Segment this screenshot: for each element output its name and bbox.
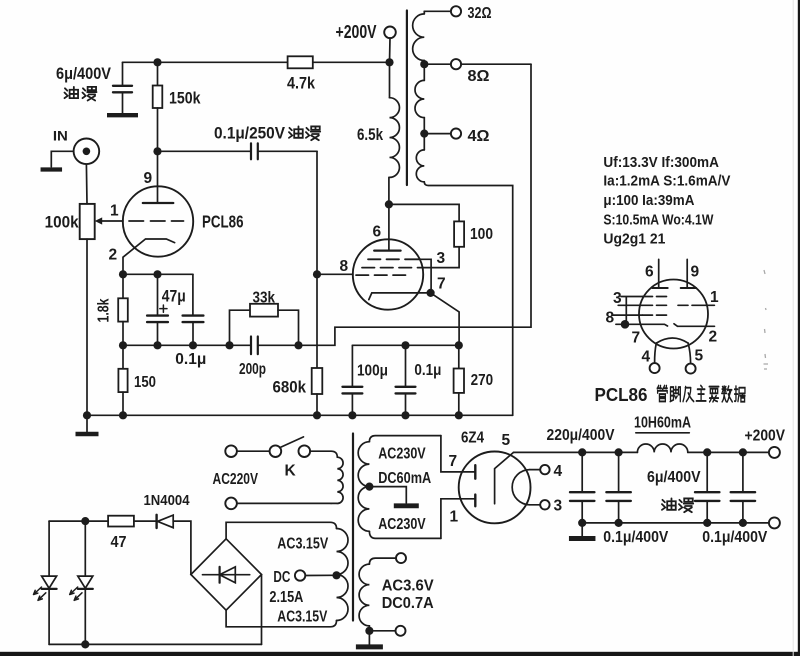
svg-text:8: 8 xyxy=(606,310,615,327)
svg-text:AC220V: AC220V xyxy=(213,471,259,488)
ground bar HV center tap xyxy=(394,503,419,508)
wire pin 7 cathode down to RC network xyxy=(431,293,460,345)
pinout cathode line pin 7 with dot xyxy=(616,324,668,326)
svg-text:DC60mA: DC60mA xyxy=(378,470,431,487)
wire B+ rail from rectifier xyxy=(514,451,638,453)
junction dot +200V node xyxy=(385,58,393,66)
wire LED bottom return rail xyxy=(49,643,261,645)
svg-text:8: 8 xyxy=(340,258,349,275)
label oil-immersed (6u cap) xyxy=(64,87,78,98)
bridge rectifier diamond xyxy=(191,539,262,610)
svg-text:7: 7 xyxy=(632,329,641,346)
junction dot HV center tap xyxy=(365,483,373,491)
svg-text:Ug2g1 21: Ug2g1 21 xyxy=(603,232,665,248)
wire plate node to screen resistor xyxy=(389,204,459,221)
diode 1N4004 xyxy=(155,515,157,528)
pinout pin 3 lead with bracket to cathode xyxy=(621,297,643,325)
pinout pin 9 lead and plate bar xyxy=(686,259,688,288)
6Z4 cathode (pin 5) lead to filter xyxy=(495,452,514,503)
output transformer secondary middle segment xyxy=(423,64,425,80)
ground rail of amplifier xyxy=(87,414,513,416)
pentode g2 dashed row xyxy=(362,267,424,269)
junction dot LED2 top xyxy=(81,517,89,525)
svg-text:IN: IN xyxy=(53,129,68,144)
resistor 680k grid leak xyxy=(316,274,318,368)
svg-text:7: 7 xyxy=(449,453,458,470)
faint scan marks right margin xyxy=(764,270,769,369)
wire DC terminal to center tap xyxy=(305,574,332,576)
svg-text:47: 47 xyxy=(111,534,127,551)
inductor choke 10H60mA xyxy=(637,444,687,452)
svg-text:2.15A: 2.15A xyxy=(269,589,303,606)
ground bar of 6u cap xyxy=(107,113,138,117)
wire secondary top to 32 ohm terminal xyxy=(424,10,451,12)
wire bridge output to bottom rail xyxy=(261,575,263,645)
wire LED top feed xyxy=(49,520,108,522)
wire 8 ohm terminal to feedback line xyxy=(461,63,531,65)
svg-text:100: 100 xyxy=(470,226,493,243)
terminal 3 heater xyxy=(540,500,549,509)
svg-text:1N4004: 1N4004 xyxy=(144,493,190,509)
svg-text:6μ/400V: 6μ/400V xyxy=(56,65,111,83)
svg-text:5: 5 xyxy=(502,432,511,449)
wire HV center tap to ground xyxy=(369,487,406,503)
svg-text:6.5k: 6.5k xyxy=(357,126,384,144)
svg-text:AC230V: AC230V xyxy=(378,516,426,533)
scan border bottom xyxy=(0,652,800,656)
svg-text:+200V: +200V xyxy=(745,428,786,445)
capacitor 100u cathode bypass xyxy=(351,345,353,386)
terminal +200V (top) xyxy=(384,27,396,39)
junction dot feedback node xyxy=(294,341,302,349)
terminal 4 ohm xyxy=(451,129,461,139)
svg-text:0.1μ/250V: 0.1μ/250V xyxy=(214,125,285,143)
svg-text:AC230V: AC230V xyxy=(378,446,426,463)
wire HV bottom to 6Z4 pin 1 xyxy=(441,499,475,539)
capacitor 200p feedback xyxy=(251,337,258,355)
capacitor 0.1u/400V second xyxy=(742,452,744,491)
pinout terminal pin 4 xyxy=(650,363,660,373)
scan border right xyxy=(798,0,800,656)
power transformer filament winding AC3.6V xyxy=(369,558,396,564)
output transformer core xyxy=(406,11,408,186)
svg-text:PCL86: PCL86 xyxy=(202,212,244,232)
capacitor 0.1u/250V oil coupling cap xyxy=(158,150,252,152)
svg-text:2: 2 xyxy=(109,247,118,264)
wire coupling cap down to grid node xyxy=(316,151,318,274)
svg-text:220μ/400V: 220μ/400V xyxy=(547,427,616,444)
svg-text:K: K xyxy=(285,463,297,480)
junction dot 150k top xyxy=(153,58,161,66)
6Z4 plate bar pin 7 xyxy=(474,465,476,479)
svg-text:10H60mA: 10H60mA xyxy=(634,415,691,432)
svg-text:+200V: +200V xyxy=(336,21,377,42)
LED D1 indicator xyxy=(48,521,50,576)
6Z4 heater arc xyxy=(512,470,530,505)
capacitor 0.1u pentode cathode xyxy=(405,345,407,386)
junction dot LED winding center tap xyxy=(332,571,340,579)
junction dot triode plate node xyxy=(153,147,161,155)
triode grid dashed line (pin 1) xyxy=(129,220,184,222)
wire AC terminal to switch xyxy=(237,450,270,452)
svg-text:100μ: 100μ xyxy=(357,363,388,380)
wire pentode cathode RC row xyxy=(352,344,458,346)
terminal 32 ohm xyxy=(451,6,461,16)
wire choke to +200V terminal xyxy=(688,451,769,453)
terminal 8 ohm xyxy=(451,59,461,69)
svg-text:4: 4 xyxy=(554,463,563,480)
ground stub of input jack xyxy=(51,151,73,167)
capacitor 220u/400V reservoir xyxy=(581,452,583,491)
svg-text:32Ω: 32Ω xyxy=(468,5,492,22)
output transformer secondary bottom segment xyxy=(423,134,425,150)
svg-text:4.7k: 4.7k xyxy=(287,75,316,93)
svg-text:4: 4 xyxy=(642,349,651,366)
pinout pin 6 lead and plate bar xyxy=(658,259,660,288)
svg-text:1.8k: 1.8k xyxy=(96,298,113,322)
svg-text:9: 9 xyxy=(691,263,700,280)
junction dot plate node xyxy=(385,200,393,208)
node +200V top supply rail wire xyxy=(123,61,288,63)
svg-text:0.1μ/400V: 0.1μ/400V xyxy=(702,529,768,546)
junction dot 8 ohm tap xyxy=(420,60,428,68)
bridge inner diode symbol xyxy=(203,574,250,576)
svg-text:Ia:1.2mA S:1.6mA/V: Ia:1.2mA S:1.6mA/V xyxy=(603,174,730,190)
resistor 100 screen grid stopper xyxy=(454,221,464,246)
resistor 270 cathode xyxy=(458,345,460,368)
wire 100 resistor to g2 xyxy=(424,247,460,268)
wire input jack to pot top xyxy=(85,164,88,204)
junction dot grid node pentode xyxy=(313,270,321,278)
6Z4 plate bar pin 1 xyxy=(474,495,476,507)
svg-text:6: 6 xyxy=(373,224,382,241)
resistor 150 cathode lower xyxy=(122,345,124,369)
LED D2 emission arrows xyxy=(70,587,78,595)
pinout triode grid dashes pin 1 xyxy=(678,304,714,306)
svg-text:2: 2 xyxy=(709,328,718,345)
terminal IN input jack xyxy=(74,139,100,165)
triode cathode with pin 2 lead xyxy=(123,239,175,274)
wire filament bottom to terminal xyxy=(369,630,395,632)
pentode g3 dashed row and stub to cathode xyxy=(368,258,419,260)
svg-text:1: 1 xyxy=(110,203,119,220)
svg-text:7: 7 xyxy=(437,276,446,293)
wire grid node to pin 8 xyxy=(317,273,353,275)
wire pot bottom to ground rail xyxy=(86,239,88,415)
potentiometer 100k volume control body xyxy=(80,204,95,239)
junction dot filament bottom xyxy=(365,627,373,635)
tube PCL86 triode section envelope xyxy=(123,186,193,256)
pinout pin 8 lead xyxy=(613,314,643,316)
wire 1N4004 to bridge xyxy=(173,521,191,574)
pin 9 wire triode plate xyxy=(157,151,159,203)
terminal AC mains upper xyxy=(225,445,237,457)
wire 47 resistor to diode xyxy=(134,520,156,522)
svg-text:1: 1 xyxy=(710,289,719,306)
pinout heater arc pins 4 5 xyxy=(656,338,688,343)
capacitor 47u cathode bypass electrolytic xyxy=(157,274,159,314)
capacitor 6u/400V oil-filled (input supply bypass) xyxy=(122,62,124,84)
terminal filament upper xyxy=(396,553,406,563)
wire 8 ohm tap to terminal xyxy=(424,63,451,65)
svg-text:200p: 200p xyxy=(239,361,266,378)
resistor 1.8k cathode upper xyxy=(122,274,124,298)
svg-text:1: 1 xyxy=(450,508,459,525)
svg-text:150k: 150k xyxy=(169,90,201,108)
resistor 47 LED dropper xyxy=(108,516,134,527)
svg-text:3: 3 xyxy=(554,498,563,515)
capacitor 0.1u/400V first xyxy=(618,452,620,491)
wire +200V terminal riser xyxy=(389,38,392,62)
tube 6Z4 rectifier envelope xyxy=(459,452,531,524)
capacitor 6u/400V oil xyxy=(706,452,708,491)
svg-text:270: 270 xyxy=(471,372,494,389)
power transformer HV secondary winding xyxy=(369,436,441,442)
svg-text:9: 9 xyxy=(144,170,153,187)
wire lower AC terminal to primary bottom xyxy=(237,502,331,504)
wire heater to terminal 3 xyxy=(530,504,540,506)
wire secondary bottom return to ground rail xyxy=(424,182,512,415)
pot wiper arrow to pin 1 xyxy=(102,220,124,222)
power transformer primary winding xyxy=(331,451,337,457)
svg-text:Uf:13.3V If:300mA: Uf:13.3V If:300mA xyxy=(603,155,719,171)
svg-text:150: 150 xyxy=(134,374,156,391)
svg-text:6Z4: 6Z4 xyxy=(461,430,484,447)
svg-text:4Ω: 4Ω xyxy=(468,128,490,145)
svg-text:0.1μ: 0.1μ xyxy=(175,351,206,368)
pentode plate bar xyxy=(374,250,400,252)
svg-text:5: 5 xyxy=(695,348,704,365)
pinout terminal pin 5 xyxy=(686,364,696,374)
svg-text:6μ/400V: 6μ/400V xyxy=(647,469,701,486)
resistor 33k feedback (parallel with 200p) xyxy=(230,310,251,345)
svg-text:33k: 33k xyxy=(253,290,276,307)
svg-text:AC3.15V: AC3.15V xyxy=(277,609,328,626)
power transformer LED winding AC3.15V loop xyxy=(226,522,336,539)
wire B+ return rail xyxy=(582,522,769,524)
wire negative feedback from 8 ohm tap xyxy=(299,64,532,345)
resistor 4.7k (supply dropper) xyxy=(288,56,313,68)
terminal filament lower xyxy=(396,626,406,636)
LED D2 indicator xyxy=(84,521,86,576)
svg-text:S:10.5mA Wo:4.1W: S:10.5mA Wo:4.1W xyxy=(603,213,713,229)
wire 4.7k to +200V node xyxy=(313,61,390,63)
wire switch to transformer primary xyxy=(310,450,331,452)
output transformer primary 6.5k winding xyxy=(389,62,391,97)
svg-text:AC3.6V: AC3.6V xyxy=(382,578,435,595)
svg-text:μ:100 Ia:39mA: μ:100 Ia:39mA xyxy=(603,193,694,209)
pentode g1 dashed row (pin 8) xyxy=(356,274,406,276)
output transformer secondary winding top segment xyxy=(423,11,425,14)
svg-text:3: 3 xyxy=(437,250,446,267)
svg-text:3: 3 xyxy=(613,290,622,307)
svg-text:DC0.7A: DC0.7A xyxy=(382,595,434,612)
junction dots B+ rail xyxy=(578,448,586,456)
terminal 4 heater xyxy=(540,465,549,474)
svg-text:0.1μ/400V: 0.1μ/400V xyxy=(603,529,669,546)
svg-text:680k: 680k xyxy=(273,379,307,397)
ground symbol main rail xyxy=(86,415,88,432)
svg-text:0.1μ: 0.1μ xyxy=(414,362,441,379)
svg-text:PCL86: PCL86 xyxy=(595,384,648,405)
svg-text:47μ: 47μ xyxy=(162,287,186,305)
resistor 150k (plate load) xyxy=(157,62,159,85)
wire HV top to 6Z4 pin 7 xyxy=(441,436,475,472)
terminal +200V output xyxy=(769,447,780,458)
switch K mains xyxy=(270,445,282,457)
power transformer core xyxy=(352,434,354,621)
LED D1 emission arrows xyxy=(34,587,42,595)
pinout pentode grid dashes xyxy=(643,296,667,298)
wire 4 ohm tap to terminal xyxy=(424,133,451,135)
svg-text:100k: 100k xyxy=(45,214,80,232)
ground symbol filament xyxy=(368,631,370,645)
polarity + of 47u xyxy=(160,305,167,312)
wire cathode lower node row xyxy=(123,344,251,346)
svg-text:6: 6 xyxy=(645,263,654,280)
terminal AC mains lower xyxy=(225,498,237,510)
svg-text:DC: DC xyxy=(273,569,290,586)
label oil-immersed (coupling cap) xyxy=(289,126,303,137)
pin 6 wire pentode plate riser xyxy=(388,177,390,250)
wire heater to terminal 4 xyxy=(530,469,540,471)
triode plate bar xyxy=(143,202,174,204)
pentode cathode line xyxy=(369,293,431,300)
ground symbol filter xyxy=(581,523,583,536)
label oil-immersed (filter) xyxy=(662,498,676,509)
svg-text:AC3.15V: AC3.15V xyxy=(277,536,329,553)
capacitor 0.1u cathode (second bypass) xyxy=(192,274,194,314)
terminal B+ return xyxy=(769,517,780,528)
pinout triode cathode line pin 2 xyxy=(674,324,715,327)
tube PCL86 pentode section envelope xyxy=(353,239,423,309)
wire triode cathode node row xyxy=(123,273,193,275)
junction dot LED2 bottom xyxy=(81,640,89,648)
junction dot pin 7 cathode xyxy=(427,289,435,297)
junction dot 4 ohm tap xyxy=(420,130,428,138)
svg-text:8Ω: 8Ω xyxy=(468,68,490,85)
pinout tube envelope xyxy=(639,280,708,349)
terminal DC center tap xyxy=(295,570,305,580)
